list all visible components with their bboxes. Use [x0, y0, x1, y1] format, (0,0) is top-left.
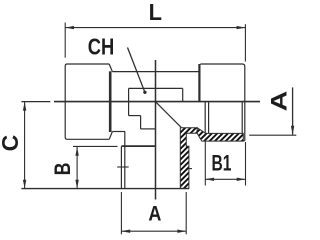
svg-text:CH: CH — [88, 35, 114, 61]
svg-text:A: A — [148, 202, 161, 226]
svg-text:B: B — [51, 162, 75, 175]
svg-text:A: A — [268, 91, 292, 112]
svg-text:L: L — [149, 0, 162, 25]
svg-text:B1: B1 — [212, 151, 232, 177]
svg-text:C: C — [0, 135, 23, 152]
